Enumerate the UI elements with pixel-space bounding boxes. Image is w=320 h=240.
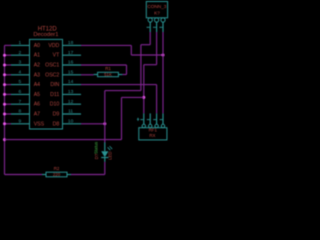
svg-text:15: 15 xyxy=(68,69,74,75)
svg-text:10: 10 xyxy=(68,118,74,124)
svg-text:A4: A4 xyxy=(34,82,40,88)
svg-text:OSC2: OSC2 xyxy=(45,72,59,78)
svg-text:3: 3 xyxy=(18,60,21,66)
svg-text:VSS: VSS xyxy=(34,121,45,127)
svg-text:A5: A5 xyxy=(34,92,40,98)
svg-text:5: 5 xyxy=(18,79,21,85)
svg-text:18: 18 xyxy=(68,40,74,46)
svg-text:16: 16 xyxy=(68,60,74,66)
svg-text:51K: 51K xyxy=(104,72,112,77)
svg-text:Status: Status xyxy=(94,142,99,154)
svg-text:A2: A2 xyxy=(34,63,40,69)
svg-text:VDD: VDD xyxy=(48,43,59,49)
svg-text:A0: A0 xyxy=(34,43,40,49)
svg-text:14: 14 xyxy=(68,79,74,85)
svg-text:D8: D8 xyxy=(53,121,60,127)
svg-text:Decoder1: Decoder1 xyxy=(33,32,58,38)
svg-text:CONN_3: CONN_3 xyxy=(147,4,166,9)
svg-text:D10: D10 xyxy=(50,102,60,108)
svg-text:A6: A6 xyxy=(34,102,40,108)
svg-text:R1: R1 xyxy=(105,66,111,71)
svg-text:A1: A1 xyxy=(34,53,40,59)
svg-text:D11: D11 xyxy=(50,92,59,98)
svg-text:D?: D? xyxy=(94,153,99,159)
svg-text:A3: A3 xyxy=(34,72,40,78)
svg-text:RX: RX xyxy=(149,133,155,138)
svg-text:13: 13 xyxy=(68,89,74,95)
svg-text:6: 6 xyxy=(18,89,21,95)
svg-text:R2: R2 xyxy=(54,166,60,171)
svg-text:RF1: RF1 xyxy=(149,128,158,133)
svg-text:VT: VT xyxy=(53,53,60,59)
svg-text:9: 9 xyxy=(18,118,21,124)
svg-text:DIN: DIN xyxy=(50,82,59,88)
svg-text:K?: K? xyxy=(154,11,160,16)
svg-text:220: 220 xyxy=(53,172,61,177)
svg-text:4: 4 xyxy=(18,69,21,75)
svg-text:17: 17 xyxy=(68,50,74,56)
svg-text:D9: D9 xyxy=(53,112,60,118)
svg-text:OSC1: OSC1 xyxy=(45,63,59,69)
svg-text:2: 2 xyxy=(18,50,21,56)
svg-text:11: 11 xyxy=(68,109,73,115)
svg-text:A7: A7 xyxy=(34,112,40,118)
svg-text:8: 8 xyxy=(18,109,21,115)
svg-text:12: 12 xyxy=(68,99,74,105)
svg-text:1: 1 xyxy=(18,40,21,46)
svg-text:LED: LED xyxy=(107,152,112,160)
svg-text:7: 7 xyxy=(18,99,21,105)
